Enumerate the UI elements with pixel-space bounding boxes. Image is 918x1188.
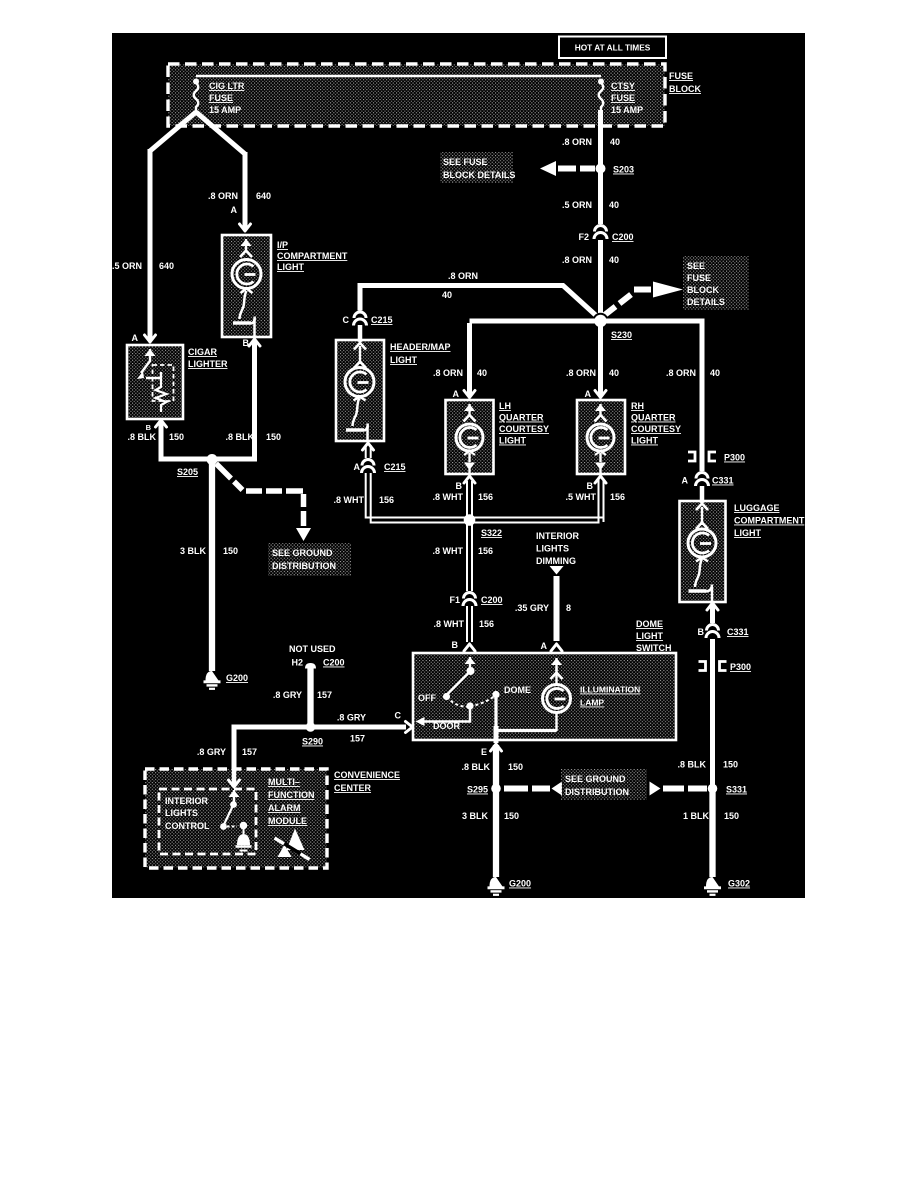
svg-text:LAMP: LAMP xyxy=(580,698,604,708)
switch element (interior lights control) xyxy=(233,790,235,803)
svg-text:CONTROL: CONTROL xyxy=(165,821,210,831)
svg-text:C200: C200 xyxy=(612,232,634,242)
svg-text:C215: C215 xyxy=(384,462,406,472)
svg-text:150: 150 xyxy=(266,432,281,442)
wire (hollow) RH B to bus xyxy=(598,481,600,517)
svg-text:A: A xyxy=(354,462,361,472)
courtesy feed bus wire xyxy=(470,321,703,475)
svg-text:S295: S295 xyxy=(467,785,488,795)
splice S322 xyxy=(464,514,476,526)
svg-text:B: B xyxy=(456,481,463,491)
svg-text:SWITCH: SWITCH xyxy=(636,643,672,653)
svg-text:1 BLK: 1 BLK xyxy=(683,811,710,821)
ground distribution pointer (right) xyxy=(650,782,661,796)
svg-text:LIGHT: LIGHT xyxy=(734,528,761,538)
svg-text:E: E xyxy=(481,747,487,757)
svg-text:LH: LH xyxy=(499,401,511,411)
svg-text:P300: P300 xyxy=(730,662,751,672)
cigar lighter U-box xyxy=(127,345,183,419)
svg-text:INTERIOR: INTERIOR xyxy=(536,531,580,541)
svg-text:B: B xyxy=(452,640,459,650)
svg-text:COURTESY: COURTESY xyxy=(499,424,549,434)
node at interior lights control input xyxy=(229,780,240,787)
wire C331-A into luggage light xyxy=(700,486,705,503)
svg-text:DOME: DOME xyxy=(504,685,531,695)
svg-text:156: 156 xyxy=(478,492,493,502)
wire (hollow) S322 to C200-F1 xyxy=(466,524,468,592)
ground distribution pointer (left) xyxy=(504,786,550,792)
svg-text:CIG LTR: CIG LTR xyxy=(209,81,245,91)
see fuse block details arrow (left) xyxy=(540,161,556,176)
wire DOME contact to lamp and E xyxy=(496,696,557,731)
LH quarter courtesy light U-box xyxy=(446,400,494,474)
svg-text:.5 ORN: .5 ORN xyxy=(112,261,142,271)
lamp element RH quarter light xyxy=(599,404,601,417)
svg-text:.8 BLK: .8 BLK xyxy=(461,762,490,772)
wire (hollow) C200-F1 to dome switch B xyxy=(466,606,468,642)
svg-text:OFF: OFF xyxy=(418,693,436,703)
svg-text:.8 WHT: .8 WHT xyxy=(433,492,464,502)
ground distribution pointer from S205 xyxy=(216,464,231,479)
wire bus to LH quarter light xyxy=(467,323,472,396)
svg-text:40: 40 xyxy=(610,137,620,147)
svg-text:.8 ORN: .8 ORN xyxy=(562,137,592,147)
svg-text:150: 150 xyxy=(504,811,519,821)
node/fork below header/map box xyxy=(363,443,374,450)
svg-text:S230: S230 xyxy=(611,330,632,340)
wire C215 to header/map light xyxy=(358,325,363,342)
svg-text:FUNCTION: FUNCTION xyxy=(268,790,315,800)
svg-text:B: B xyxy=(698,627,705,637)
svg-text:FUSE: FUSE xyxy=(209,93,233,103)
svg-text:P300: P300 xyxy=(724,453,745,463)
svg-text:.8 GRY: .8 GRY xyxy=(337,713,366,723)
svg-text:LIGHT: LIGHT xyxy=(390,355,417,365)
svg-text:.8 ORN: .8 ORN xyxy=(666,368,696,378)
connector P300 (lower) xyxy=(699,662,706,671)
connector C215 pin C xyxy=(352,311,368,327)
svg-text:B: B xyxy=(146,423,152,432)
svg-text:.8 ORN: .8 ORN xyxy=(448,271,478,281)
svg-text:A: A xyxy=(231,205,238,215)
splice S205 xyxy=(207,454,218,465)
wire S290 to dome switch C xyxy=(313,725,406,730)
svg-text:QUARTER: QUARTER xyxy=(631,413,676,423)
svg-text:150: 150 xyxy=(724,811,739,821)
wire C200-H2 to S290 xyxy=(307,668,313,725)
svg-text:LIGHTS: LIGHTS xyxy=(165,808,198,818)
svg-text:DOME: DOME xyxy=(636,619,663,629)
node B of luggage light xyxy=(707,603,718,610)
fuse CIG LTR 15A xyxy=(193,79,199,85)
splice S331 xyxy=(708,784,718,794)
svg-text:150: 150 xyxy=(508,762,523,772)
fuse-block hot bus wire xyxy=(196,75,601,78)
svg-text:40: 40 xyxy=(609,368,619,378)
svg-text:S290: S290 xyxy=(302,737,323,747)
incoming dimming wire xyxy=(550,566,564,575)
wire S290 to convenience center xyxy=(234,727,308,770)
svg-text:ALARM: ALARM xyxy=(268,803,301,813)
svg-text:150: 150 xyxy=(223,546,238,556)
svg-text:LIGHT: LIGHT xyxy=(636,631,663,641)
svg-text:MULTI–: MULTI– xyxy=(268,777,300,787)
svg-text:SEE: SEE xyxy=(687,261,705,271)
svg-text:157: 157 xyxy=(317,690,332,700)
svg-text:157: 157 xyxy=(350,734,365,744)
lamp element I/P light xyxy=(245,239,247,252)
svg-text:COMPARTMENT: COMPARTMENT xyxy=(734,516,805,526)
svg-text:40: 40 xyxy=(477,368,487,378)
svg-text:DISTRIBUTION: DISTRIBUTION xyxy=(565,787,629,797)
svg-text:DISTRIBUTION: DISTRIBUTION xyxy=(272,561,336,571)
svg-text:.8 ORN: .8 ORN xyxy=(562,255,592,265)
wire to cigar lighter xyxy=(148,149,153,341)
svg-text:3 BLK: 3 BLK xyxy=(462,811,489,821)
svg-text:BLOCK: BLOCK xyxy=(669,84,701,94)
svg-text:.8 BLK: .8 BLK xyxy=(677,760,706,770)
svg-text:156: 156 xyxy=(610,492,625,502)
wire dome switch E to S295 xyxy=(493,745,499,786)
label SEE FUSE BLOCK DETAILS (upper left) xyxy=(440,152,513,183)
wire cigar B to S205 xyxy=(161,422,208,459)
fuse block (dashed box) xyxy=(168,64,665,126)
alarm module icon (triangles with slash) xyxy=(278,845,292,858)
svg-text:NOT USED: NOT USED xyxy=(289,644,336,654)
svg-text:A: A xyxy=(682,476,689,486)
svg-text:LIGHT: LIGHT xyxy=(499,436,526,446)
svg-text:ILLUMINATION: ILLUMINATION xyxy=(580,685,640,695)
convenience center (dashed box) xyxy=(145,769,327,868)
ground G200 (left) xyxy=(206,671,219,681)
svg-text:INTERIOR: INTERIOR xyxy=(165,796,209,806)
switch element (dome light switch) xyxy=(469,657,471,670)
svg-text:156: 156 xyxy=(479,619,494,629)
svg-text:A: A xyxy=(585,389,592,399)
svg-text:F2: F2 xyxy=(578,232,589,242)
svg-text:40: 40 xyxy=(442,290,452,300)
wire S295 to G200 xyxy=(493,791,499,877)
svg-text:H2: H2 xyxy=(291,658,303,668)
label HOT AT ALL TIMES box xyxy=(559,37,666,59)
interior lights control (dashed box) xyxy=(159,789,256,854)
I/P compartment light U-box xyxy=(222,235,271,337)
svg-text:.8 ORN: .8 ORN xyxy=(208,191,238,201)
svg-text:150: 150 xyxy=(169,432,184,442)
svg-text:SEE GROUND: SEE GROUND xyxy=(272,548,333,558)
wire (hollow) LH B to bus xyxy=(466,481,468,517)
svg-text:B: B xyxy=(587,481,594,491)
svg-text:40: 40 xyxy=(710,368,720,378)
label SEE FUSE BLOCK DETAILS (right) xyxy=(683,256,749,310)
svg-text:157: 157 xyxy=(242,747,257,757)
svg-text:156: 156 xyxy=(478,546,493,556)
svg-text:.5 ORN: .5 ORN xyxy=(562,200,592,210)
svg-text:.8 ORN: .8 ORN xyxy=(566,368,596,378)
svg-text:QUARTER: QUARTER xyxy=(499,413,544,423)
svg-text:A: A xyxy=(132,333,139,343)
svg-text:.8 WHT: .8 WHT xyxy=(433,546,464,556)
lamp element luggage light xyxy=(696,504,708,511)
wire (hollow) header/map B to C215-A xyxy=(365,445,367,459)
lamp element header/map light xyxy=(354,343,366,350)
wire I/P B to S205 xyxy=(216,341,255,459)
svg-text:3 BLK: 3 BLK xyxy=(180,546,207,556)
svg-text:LIGHTS: LIGHTS xyxy=(536,544,569,554)
svg-text:15 AMP: 15 AMP xyxy=(209,105,241,115)
svg-text:MODULE: MODULE xyxy=(268,816,307,826)
svg-text:.8 BLK: .8 BLK xyxy=(127,432,156,442)
svg-text:F1: F1 xyxy=(449,595,460,605)
svg-text:FUSE: FUSE xyxy=(687,273,711,283)
svg-text:C215: C215 xyxy=(371,315,393,325)
svg-text:.8 BLK: .8 BLK xyxy=(225,432,254,442)
svg-text:DIMMING: DIMMING xyxy=(536,556,576,566)
svg-text:.8 GRY: .8 GRY xyxy=(273,690,302,700)
wire CTSY fuse to S230 xyxy=(598,110,603,321)
connector C200 pin F1 xyxy=(462,591,478,607)
wire to I/P light xyxy=(243,152,248,230)
svg-text:.35 GRY: .35 GRY xyxy=(515,603,549,613)
svg-text:SEE GROUND: SEE GROUND xyxy=(565,774,626,784)
wire S230 to RH quarter light xyxy=(598,323,603,396)
svg-text:BLOCK DETAILS: BLOCK DETAILS xyxy=(443,170,515,180)
svg-text:BLOCK: BLOCK xyxy=(687,285,719,295)
svg-text:LIGHT: LIGHT xyxy=(277,262,304,272)
svg-text:S203: S203 xyxy=(613,165,634,175)
svg-text:COURTESY: COURTESY xyxy=(631,424,681,434)
svg-text:40: 40 xyxy=(609,255,619,265)
svg-text:.8 WHT: .8 WHT xyxy=(434,619,465,629)
svg-text:I/P: I/P xyxy=(277,240,288,250)
svg-text:.5 WHT: .5 WHT xyxy=(566,492,597,502)
svg-text:8: 8 xyxy=(566,603,571,613)
svg-text:HOT AT ALL TIMES: HOT AT ALL TIMES xyxy=(575,43,651,53)
svg-text:150: 150 xyxy=(723,760,738,770)
see fuse block details pointer from S230 xyxy=(604,295,631,316)
svg-text:C200: C200 xyxy=(481,595,503,605)
cigar lighter element xyxy=(149,349,151,362)
dome light switch box xyxy=(413,653,676,740)
svg-text:G200: G200 xyxy=(509,879,531,889)
wire V-split from CIG LTR fuse xyxy=(150,112,245,154)
svg-text:S331: S331 xyxy=(726,785,747,795)
svg-text:A: A xyxy=(453,389,460,399)
svg-text:COMPARTMENT: COMPARTMENT xyxy=(277,251,348,261)
svg-text:640: 640 xyxy=(159,261,174,271)
svg-text:CONVENIENCE: CONVENIENCE xyxy=(334,770,400,780)
header/map light U-box xyxy=(336,340,384,441)
svg-text:40: 40 xyxy=(609,200,619,210)
svg-text:LIGHTER: LIGHTER xyxy=(188,359,228,369)
wire luggage B to S331 xyxy=(710,605,715,786)
wire S331 to G302 xyxy=(709,791,715,877)
svg-text:15 AMP: 15 AMP xyxy=(611,105,643,115)
svg-text:G200: G200 xyxy=(226,673,248,683)
svg-text:CENTER: CENTER xyxy=(334,783,372,793)
wire (hollow) C215-A to courtesy ground bus xyxy=(366,473,604,518)
ground G302 xyxy=(706,877,719,887)
svg-text:.8 WHT: .8 WHT xyxy=(334,495,365,505)
luggage compartment light U-box xyxy=(680,501,726,602)
svg-text:FUSE: FUSE xyxy=(611,93,635,103)
alarm bell symbol xyxy=(240,822,248,830)
svg-text:HEADER/MAP: HEADER/MAP xyxy=(390,342,451,352)
fuse CTSY 15A xyxy=(598,79,604,85)
svg-text:C331: C331 xyxy=(727,627,749,637)
connector P300 (upper) xyxy=(688,452,695,461)
lamp element LH quarter light xyxy=(468,404,470,417)
black schematic background xyxy=(112,33,805,898)
connector C331 pin B xyxy=(705,623,721,639)
wire S230 to header/map light (via C215) xyxy=(360,286,601,321)
svg-text:C331: C331 xyxy=(712,476,734,486)
svg-text:FUSE: FUSE xyxy=(669,71,693,81)
svg-text:C: C xyxy=(343,315,350,325)
wire DOOR contact to terminal C xyxy=(424,708,470,722)
svg-text:C: C xyxy=(395,711,402,721)
svg-text:CTSY: CTSY xyxy=(611,81,635,91)
label SEE GROUND DISTRIBUTION (bottom) xyxy=(561,769,647,800)
svg-text:LUGGAGE: LUGGAGE xyxy=(734,503,780,513)
svg-text:A: A xyxy=(541,641,548,651)
label SEE GROUND DISTRIBUTION (left) xyxy=(268,543,351,576)
svg-text:.8 ORN: .8 ORN xyxy=(433,368,463,378)
svg-text:G302: G302 xyxy=(728,879,750,889)
svg-text:S205: S205 xyxy=(177,467,198,477)
connector C200 pin F2 xyxy=(593,224,609,240)
svg-text:RH: RH xyxy=(631,401,644,411)
illumination lamp element xyxy=(555,658,557,671)
svg-text:CIGAR: CIGAR xyxy=(188,347,218,357)
ground G200 (bottom) xyxy=(490,877,503,887)
svg-text:S322: S322 xyxy=(481,528,502,538)
splice S203 xyxy=(596,164,606,174)
svg-text:DETAILS: DETAILS xyxy=(687,297,725,307)
splice S230 xyxy=(592,313,608,329)
wire into interior lights control xyxy=(232,768,237,786)
svg-text:640: 640 xyxy=(256,191,271,201)
wire S205 to G200 xyxy=(209,462,215,671)
svg-text:156: 156 xyxy=(379,495,394,505)
connector C331 pin A xyxy=(694,471,710,487)
svg-text:LIGHT: LIGHT xyxy=(631,436,658,446)
splice S295 xyxy=(491,784,501,794)
svg-text:SEE FUSE: SEE FUSE xyxy=(443,157,488,167)
connector C215 pin A xyxy=(360,458,376,474)
svg-text:C200: C200 xyxy=(323,658,345,668)
RH quarter courtesy light U-box xyxy=(577,400,625,474)
splice S290 xyxy=(306,722,316,732)
svg-text:.8 GRY: .8 GRY xyxy=(197,747,226,757)
